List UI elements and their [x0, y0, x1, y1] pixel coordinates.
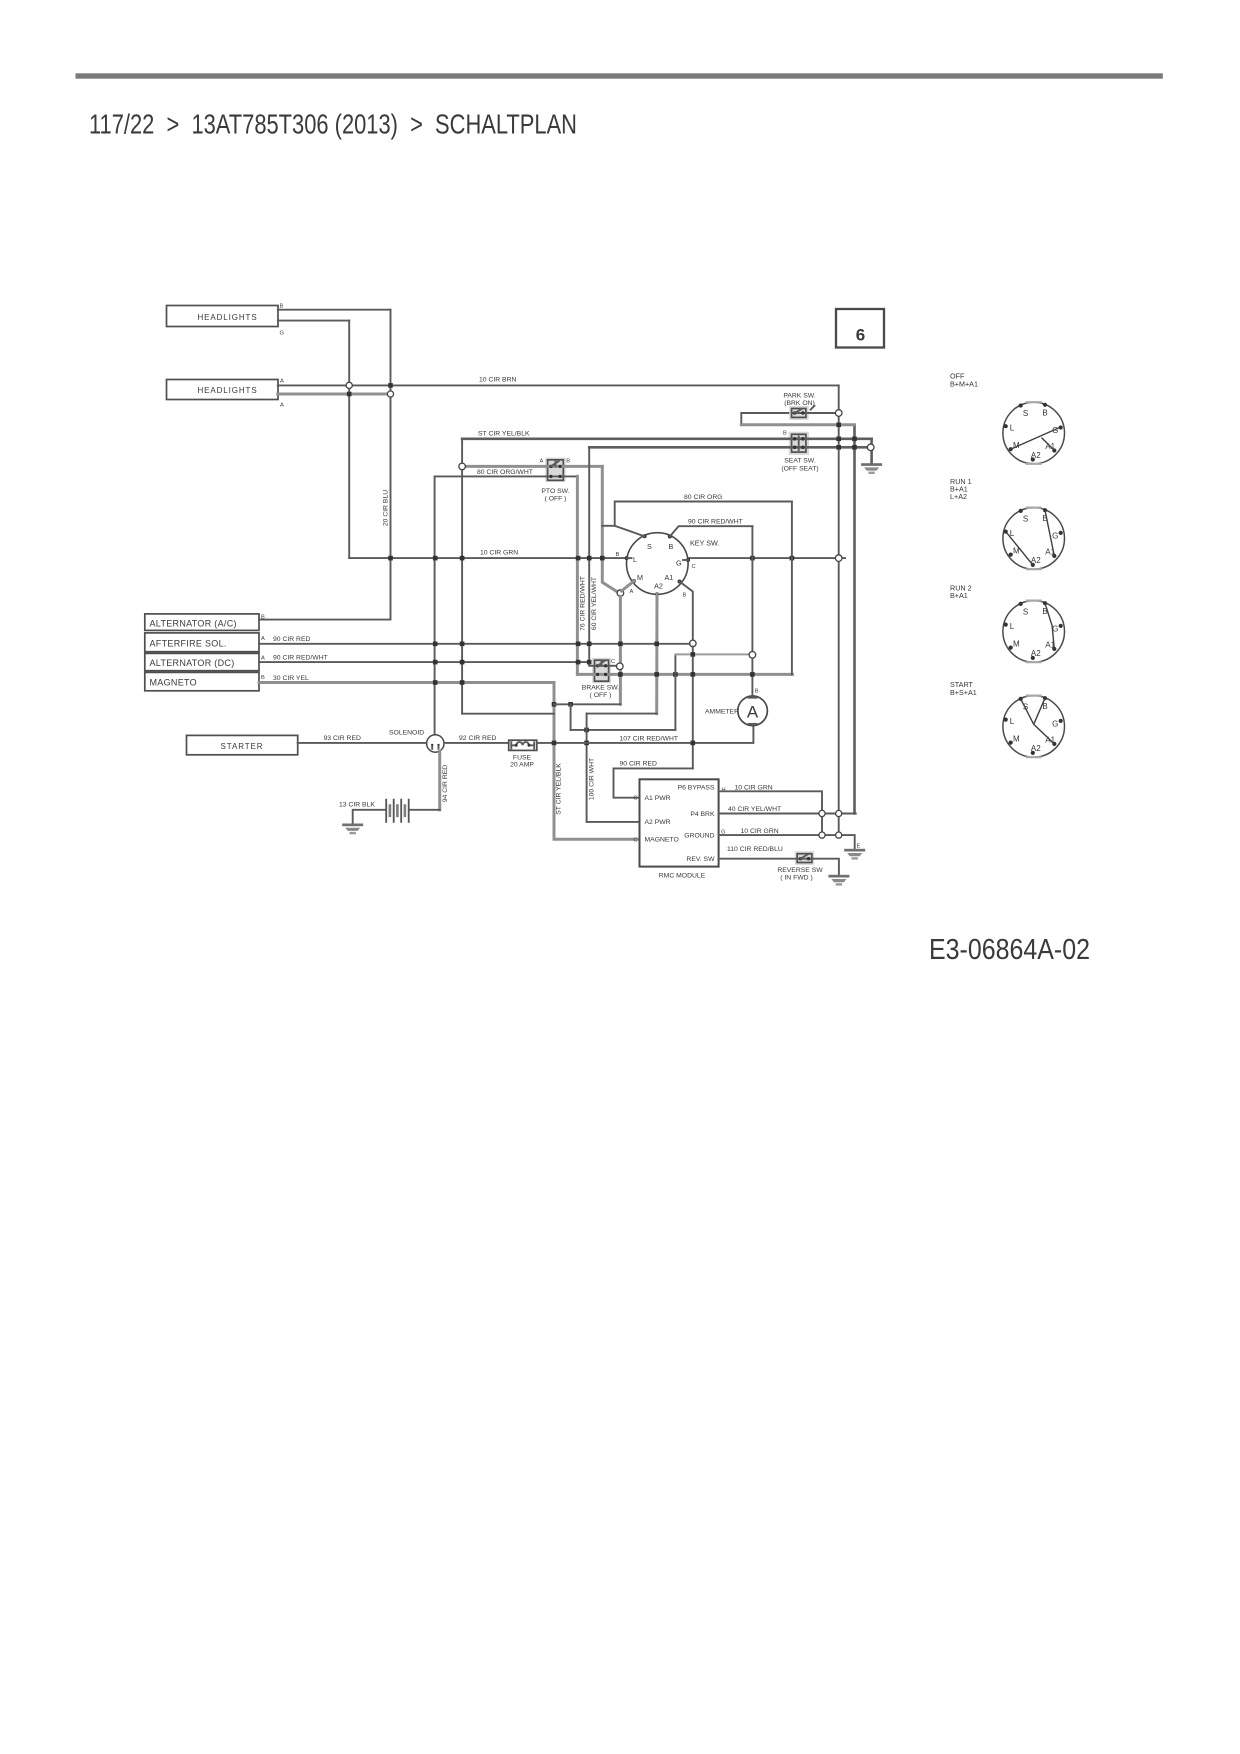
svg-text:93 CIR RED: 93 CIR RED: [324, 735, 361, 742]
svg-text:AFTERFIRE SOL.: AFTERFIRE SOL.: [150, 639, 227, 649]
svg-text:AMMETER: AMMETER: [705, 709, 739, 716]
svg-text:A2: A2: [1031, 451, 1041, 460]
wire 10 CIR BRN long horizontal: [278, 384, 839, 386]
crossing circle x349 on 10 CIR BRN: [346, 382, 352, 388]
svg-text:S: S: [1023, 607, 1028, 616]
svg-text:A1: A1: [665, 573, 674, 582]
connector circle GROUND at x822: [819, 832, 825, 838]
svg-text:B: B: [669, 542, 674, 551]
svg-text:C: C: [633, 796, 637, 802]
svg-text:10 CIR GRN: 10 CIR GRN: [480, 550, 518, 557]
svg-text:E3-06864A-02: E3-06864A-02: [929, 934, 1090, 966]
wire 90 CIR RED (afterfire): [259, 643, 690, 645]
junction dots on y742.9: [552, 741, 695, 746]
svg-text:P4 BRK: P4 BRK: [690, 811, 715, 818]
svg-text:B: B: [683, 593, 687, 599]
junction dots on alternator DC wire: [433, 660, 592, 665]
wire REV. SW 110 CIR RED/BLU: [719, 859, 839, 875]
ground (top right): [861, 463, 882, 474]
svg-text:B: B: [280, 304, 284, 310]
wire fuse to ammeter corner (107 CIR RED/WHT): [537, 726, 754, 743]
park switch PARK SW. (BRK ON): [789, 406, 814, 420]
wire 20 CIR BLU vertical: [390, 310, 392, 620]
wire PTO gray feed: [462, 465, 602, 468]
svg-text:B: B: [616, 552, 620, 558]
headlights box 2: [167, 380, 279, 400]
wire B terminal 90 CIR RED/WHT: [670, 526, 753, 536]
connector circle x390 end of gray stub: [387, 391, 393, 397]
wire 90 CIR RED H5: [614, 768, 693, 797]
svg-text:10 CIR GRN: 10 CIR GRN: [735, 785, 773, 792]
wire S terminal up and 80 CIR ORG loop: [615, 502, 792, 537]
svg-text:A2: A2: [654, 582, 663, 591]
svg-text:ALTERNATOR (DC): ALTERNATOR (DC): [150, 658, 235, 668]
svg-text:E: E: [857, 844, 861, 850]
connector circle 10 CIR GRN at bus838: [835, 555, 842, 562]
connector circle on ST bus at PTO feed: [459, 463, 466, 470]
svg-text:MAGNETO: MAGNETO: [150, 678, 197, 688]
svg-text:REVERSE SW: REVERSE SW: [777, 867, 823, 874]
junction dot thin gray at x692.8: [691, 652, 696, 657]
svg-text:G: G: [676, 559, 682, 568]
wire thin gray y654.4: [675, 653, 749, 655]
svg-text:90 CIR RED/WHT: 90 CIR RED/WHT: [688, 519, 743, 526]
junction dots seat wires at buses: [836, 437, 856, 450]
wire x752 vertical (B drop to ammeter): [751, 526, 753, 696]
svg-text:110 CIR RED/BLU: 110 CIR RED/BLU: [727, 846, 783, 853]
svg-text:BRAKE SW.: BRAKE SW.: [582, 685, 620, 692]
svg-text:A1 PWR: A1 PWR: [645, 795, 671, 802]
bus vertical x838.7 (right main bus): [838, 385, 840, 835]
bus vertical x854.5 (second right bus): [853, 425, 856, 814]
svg-text:A: A: [540, 459, 544, 465]
svg-text:60 CIR YEL/WHT: 60 CIR YEL/WHT: [591, 577, 598, 630]
alternator (A/C) box: [145, 614, 259, 631]
junction dot magneto vertical at fuse wire: [552, 702, 557, 707]
svg-text:G: G: [1052, 531, 1058, 540]
wire 30 CIR YEL gray (magneto): [259, 681, 554, 684]
wire headlights1 B to 20 CIR BLU bus: [278, 309, 391, 311]
svg-text:B+A1: B+A1: [950, 591, 968, 600]
connector circle thin gray at x752.4: [749, 652, 756, 659]
wire PTO lower dark horizontal: [435, 475, 578, 477]
svg-text:B: B: [261, 675, 265, 681]
key switch KEY SW.: [625, 533, 691, 597]
junction dots on 10 CIR GRN: [388, 556, 794, 561]
wire 92 CIR RED solenoid to fuse: [444, 742, 509, 744]
wire vertical x589: [589, 447, 594, 666]
svg-text:B: B: [783, 431, 787, 437]
wire gray vertical x578: [576, 476, 579, 674]
wire H3 y729.9: [571, 729, 676, 731]
svg-text:A2 PWR: A2 PWR: [645, 819, 671, 826]
wire magneto vertical x554 down to RMC: [554, 683, 640, 840]
wire gray park lower horizontal: [741, 423, 854, 426]
wire 93 CIR RED starter to solenoid: [298, 742, 427, 744]
junction dots on afterfire wire: [433, 642, 659, 647]
header rule: [76, 73, 1163, 78]
switch state circle START: [1003, 696, 1065, 758]
svg-text:SOLENOID: SOLENOID: [389, 730, 424, 737]
svg-text:13 CIR BLK: 13 CIR BLK: [339, 802, 375, 809]
svg-text:A: A: [747, 703, 759, 722]
svg-text:L+A2: L+A2: [950, 492, 967, 501]
brake switch pins: [595, 661, 609, 676]
svg-text:90 CIR RED: 90 CIR RED: [620, 761, 657, 768]
svg-text:80 CIR ORG/WHT: 80 CIR ORG/WHT: [477, 469, 533, 476]
svg-text:30 CIR YEL: 30 CIR YEL: [273, 675, 309, 682]
svg-text:S: S: [647, 542, 652, 551]
svg-text:76 CIR RED/WHT: 76 CIR RED/WHT: [580, 576, 587, 631]
ground (battery): [342, 824, 363, 835]
wire PTO B gray drop to M: [602, 466, 617, 592]
wire M gray vertical: [620, 581, 634, 704]
svg-text:KEY SW.: KEY SW.: [690, 539, 719, 548]
PTO switch box frame: [545, 458, 566, 483]
battery: [386, 799, 409, 823]
solenoid: [427, 735, 444, 752]
connector circle park wire at bus: [835, 410, 842, 417]
wire vertical x570.6: [570, 704, 572, 730]
ground (RMC): [844, 849, 865, 860]
svg-text:ST CIR YEL/BLK: ST CIR YEL/BLK: [478, 431, 530, 438]
svg-text:ST CIR YEL/BLK: ST CIR YEL/BLK: [556, 763, 563, 815]
wire A2 gray vertical: [655, 594, 658, 713]
svg-text:G: G: [1052, 719, 1058, 728]
junction dot x349 on gray stub: [347, 392, 352, 397]
svg-text:94 CIR RED: 94 CIR RED: [442, 765, 449, 802]
wire brake lower H1: [554, 703, 620, 705]
connector circle A1 at 90 CIR RED: [690, 640, 697, 647]
switch state circle RUN 2: [1003, 601, 1065, 663]
svg-text:80 CIR ORG: 80 CIR ORG: [684, 494, 723, 501]
PTO switch pins: [549, 461, 562, 478]
svg-text:(OFF SEAT): (OFF SEAT): [781, 466, 818, 473]
svg-text:( IN FWD ): ( IN FWD ): [780, 875, 812, 882]
svg-text:6: 6: [856, 326, 865, 345]
afterfire sol. box: [145, 633, 259, 652]
svg-text:S: S: [1023, 514, 1028, 523]
fuse FUSE 20 AMP: [509, 740, 537, 750]
svg-text:ALTERNATOR (A/C): ALTERNATOR (A/C): [150, 618, 237, 628]
switch state circle OFF: [1003, 402, 1065, 464]
svg-text:STARTER: STARTER: [221, 742, 264, 751]
wire vertical x349: [348, 321, 350, 558]
connector circle P4 at x822: [819, 810, 825, 816]
RMC module box: [640, 779, 719, 866]
svg-text:M: M: [1013, 640, 1020, 649]
wire ST bus jog y713.7: [462, 713, 554, 715]
svg-text:M: M: [637, 573, 643, 582]
connector circle P4 at bus838: [836, 810, 842, 816]
wire 10 CIR GRN right segment: [688, 557, 845, 559]
wire A1 drop: [680, 582, 693, 641]
wire solenoid feed vertical x435: [434, 476, 436, 735]
svg-text:SEAT SW.: SEAT SW.: [784, 458, 816, 465]
svg-text:A2: A2: [1031, 744, 1041, 753]
wire 10 CIR GRN left segment: [349, 557, 626, 559]
svg-text:117/22 > 13AT785T306 (2013): 117/22 > 13AT785T306 (2013) > SCHALTPLAN: [89, 109, 577, 140]
junction dot x390 on 10 CIR BRN: [388, 383, 393, 388]
svg-text:10 CIR GRN: 10 CIR GRN: [741, 828, 779, 835]
svg-text:107 CIR RED/WHT: 107 CIR RED/WHT: [620, 736, 679, 743]
svg-text:20 AMP: 20 AMP: [510, 762, 534, 769]
svg-text:90 CIR RED: 90 CIR RED: [273, 636, 310, 643]
svg-text:C: C: [611, 659, 615, 665]
magneto box: [145, 672, 259, 690]
wire P4 BRK 40 CIR YEL/WHT: [719, 813, 856, 815]
brake switch box frame: [592, 658, 611, 684]
svg-text:A: A: [261, 636, 265, 642]
wire headlights1 G down-branch: [278, 320, 349, 322]
svg-text:100 CIR WHT: 100 CIR WHT: [589, 758, 596, 800]
svg-text:HEADLIGHTS: HEADLIGHTS: [197, 313, 257, 322]
connector circle brake B on M-vertical: [617, 663, 624, 670]
svg-text:10 CIR BRN: 10 CIR BRN: [479, 377, 516, 384]
junction dots on magneto wire: [433, 680, 465, 685]
svg-text:L: L: [1010, 622, 1015, 631]
svg-text:A2: A2: [1031, 649, 1041, 658]
svg-text:92 CIR RED: 92 CIR RED: [459, 735, 496, 742]
park switch lead-in jog: [741, 413, 791, 425]
wire ST CIR YEL/BLK horizontal: [462, 437, 871, 440]
wire vertical x675.4: [674, 654, 676, 730]
wire S spur to PTO drop: [602, 525, 614, 527]
ammeter AMMETER: [738, 696, 768, 726]
svg-text:PTO SW.: PTO SW.: [541, 488, 569, 495]
svg-text:L: L: [1010, 717, 1015, 726]
junction dot H3 x586.6: [584, 728, 589, 733]
svg-text:M: M: [1013, 735, 1020, 744]
alternator (DC) box: [145, 653, 259, 670]
headlights box 1: [167, 306, 279, 327]
svg-text:40 CIR YEL/WHT: 40 CIR YEL/WHT: [728, 806, 781, 813]
svg-text:RMC MODULE: RMC MODULE: [659, 873, 706, 880]
wire gray bottom run y674: [577, 673, 792, 676]
svg-text:A: A: [280, 403, 284, 409]
svg-text:G: G: [280, 331, 284, 337]
svg-text:B: B: [755, 689, 759, 695]
svg-text:L: L: [633, 555, 637, 564]
connector circle M terminal: [617, 590, 624, 597]
wire x792 vertical (80 CIR ORG down): [791, 502, 793, 675]
svg-text:HEADLIGHTS: HEADLIGHTS: [197, 386, 257, 395]
wire park switch to bus: [806, 412, 839, 414]
svg-text:B: B: [566, 459, 570, 465]
svg-text:A: A: [630, 589, 634, 595]
junction dot gray park wire at bus838: [836, 423, 841, 428]
wire 90 CIR RED/WHT (alternator DC): [259, 661, 589, 663]
svg-text:PARK SW.: PARK SW.: [783, 393, 815, 400]
svg-text:REV. SW: REV. SW: [686, 856, 715, 863]
wire battery left to ground: [353, 810, 386, 823]
svg-text:L: L: [1010, 424, 1015, 433]
wire ST bus vertical x462: [461, 439, 463, 714]
svg-text:MAGNETO: MAGNETO: [645, 837, 679, 844]
wire brake B stub: [609, 665, 617, 667]
reverse switch box frame: [795, 851, 814, 865]
connector circle GROUND at bus838: [836, 832, 842, 838]
svg-text:B+M+A1: B+M+A1: [950, 379, 978, 388]
wire battery right to 94 CIR RED: [410, 809, 440, 811]
wire gray stub headlights2 lower: [278, 393, 389, 396]
connector circle seat lower wire end: [867, 444, 874, 451]
seat switch box frame: [789, 432, 809, 455]
wire vertical x586.6 down to RMC A2: [587, 714, 640, 822]
svg-text:90 CIR RED/WHT: 90 CIR RED/WHT: [273, 654, 328, 661]
wire seat lower horizontal: [589, 446, 871, 449]
switch state circle RUN 1: [1003, 508, 1065, 570]
svg-text:B: B: [1042, 409, 1047, 418]
wire gray battery to solenoid 94 CIR RED: [438, 752, 441, 810]
svg-text:P6 BYPASS: P6 BYPASS: [678, 785, 715, 792]
seat switch pins: [793, 437, 805, 451]
starter box STARTER: [187, 735, 298, 754]
svg-text:C: C: [633, 838, 637, 844]
wire GROUND 10 CIR GRN: [719, 835, 855, 848]
junction dot x586.6 at H3: [584, 741, 589, 746]
svg-text:C: C: [692, 564, 696, 570]
svg-text:GROUND: GROUND: [684, 833, 714, 840]
wire alternator A/C to 20 CIR BLU: [259, 619, 391, 621]
svg-text:20 CIR BLU: 20 CIR BLU: [383, 490, 390, 526]
wire x692.8 vertical below circle: [692, 647, 694, 769]
svg-text:A: A: [280, 379, 284, 385]
svg-text:(BRK ON): (BRK ON): [784, 400, 815, 407]
wire P6 BYPASS 10 CIR GRN: [719, 791, 822, 835]
reverse switch pins: [799, 854, 810, 860]
svg-text:B+S+A1: B+S+A1: [950, 688, 977, 697]
junction dot H1 x570.6: [568, 702, 573, 707]
svg-text:( OFF ): ( OFF ): [590, 692, 612, 699]
junction dots on gray bottom run y674: [618, 672, 755, 677]
box 6 (sheet number): [836, 309, 884, 348]
svg-text:A: A: [261, 656, 265, 662]
ground (reverse): [828, 875, 849, 886]
wire ST to ground (top right): [870, 439, 873, 463]
svg-text:S: S: [1023, 409, 1028, 418]
wire H2 y713.6: [587, 713, 657, 715]
svg-text:FUSE: FUSE: [513, 755, 532, 762]
svg-text:( OFF ): ( OFF ): [545, 496, 567, 503]
